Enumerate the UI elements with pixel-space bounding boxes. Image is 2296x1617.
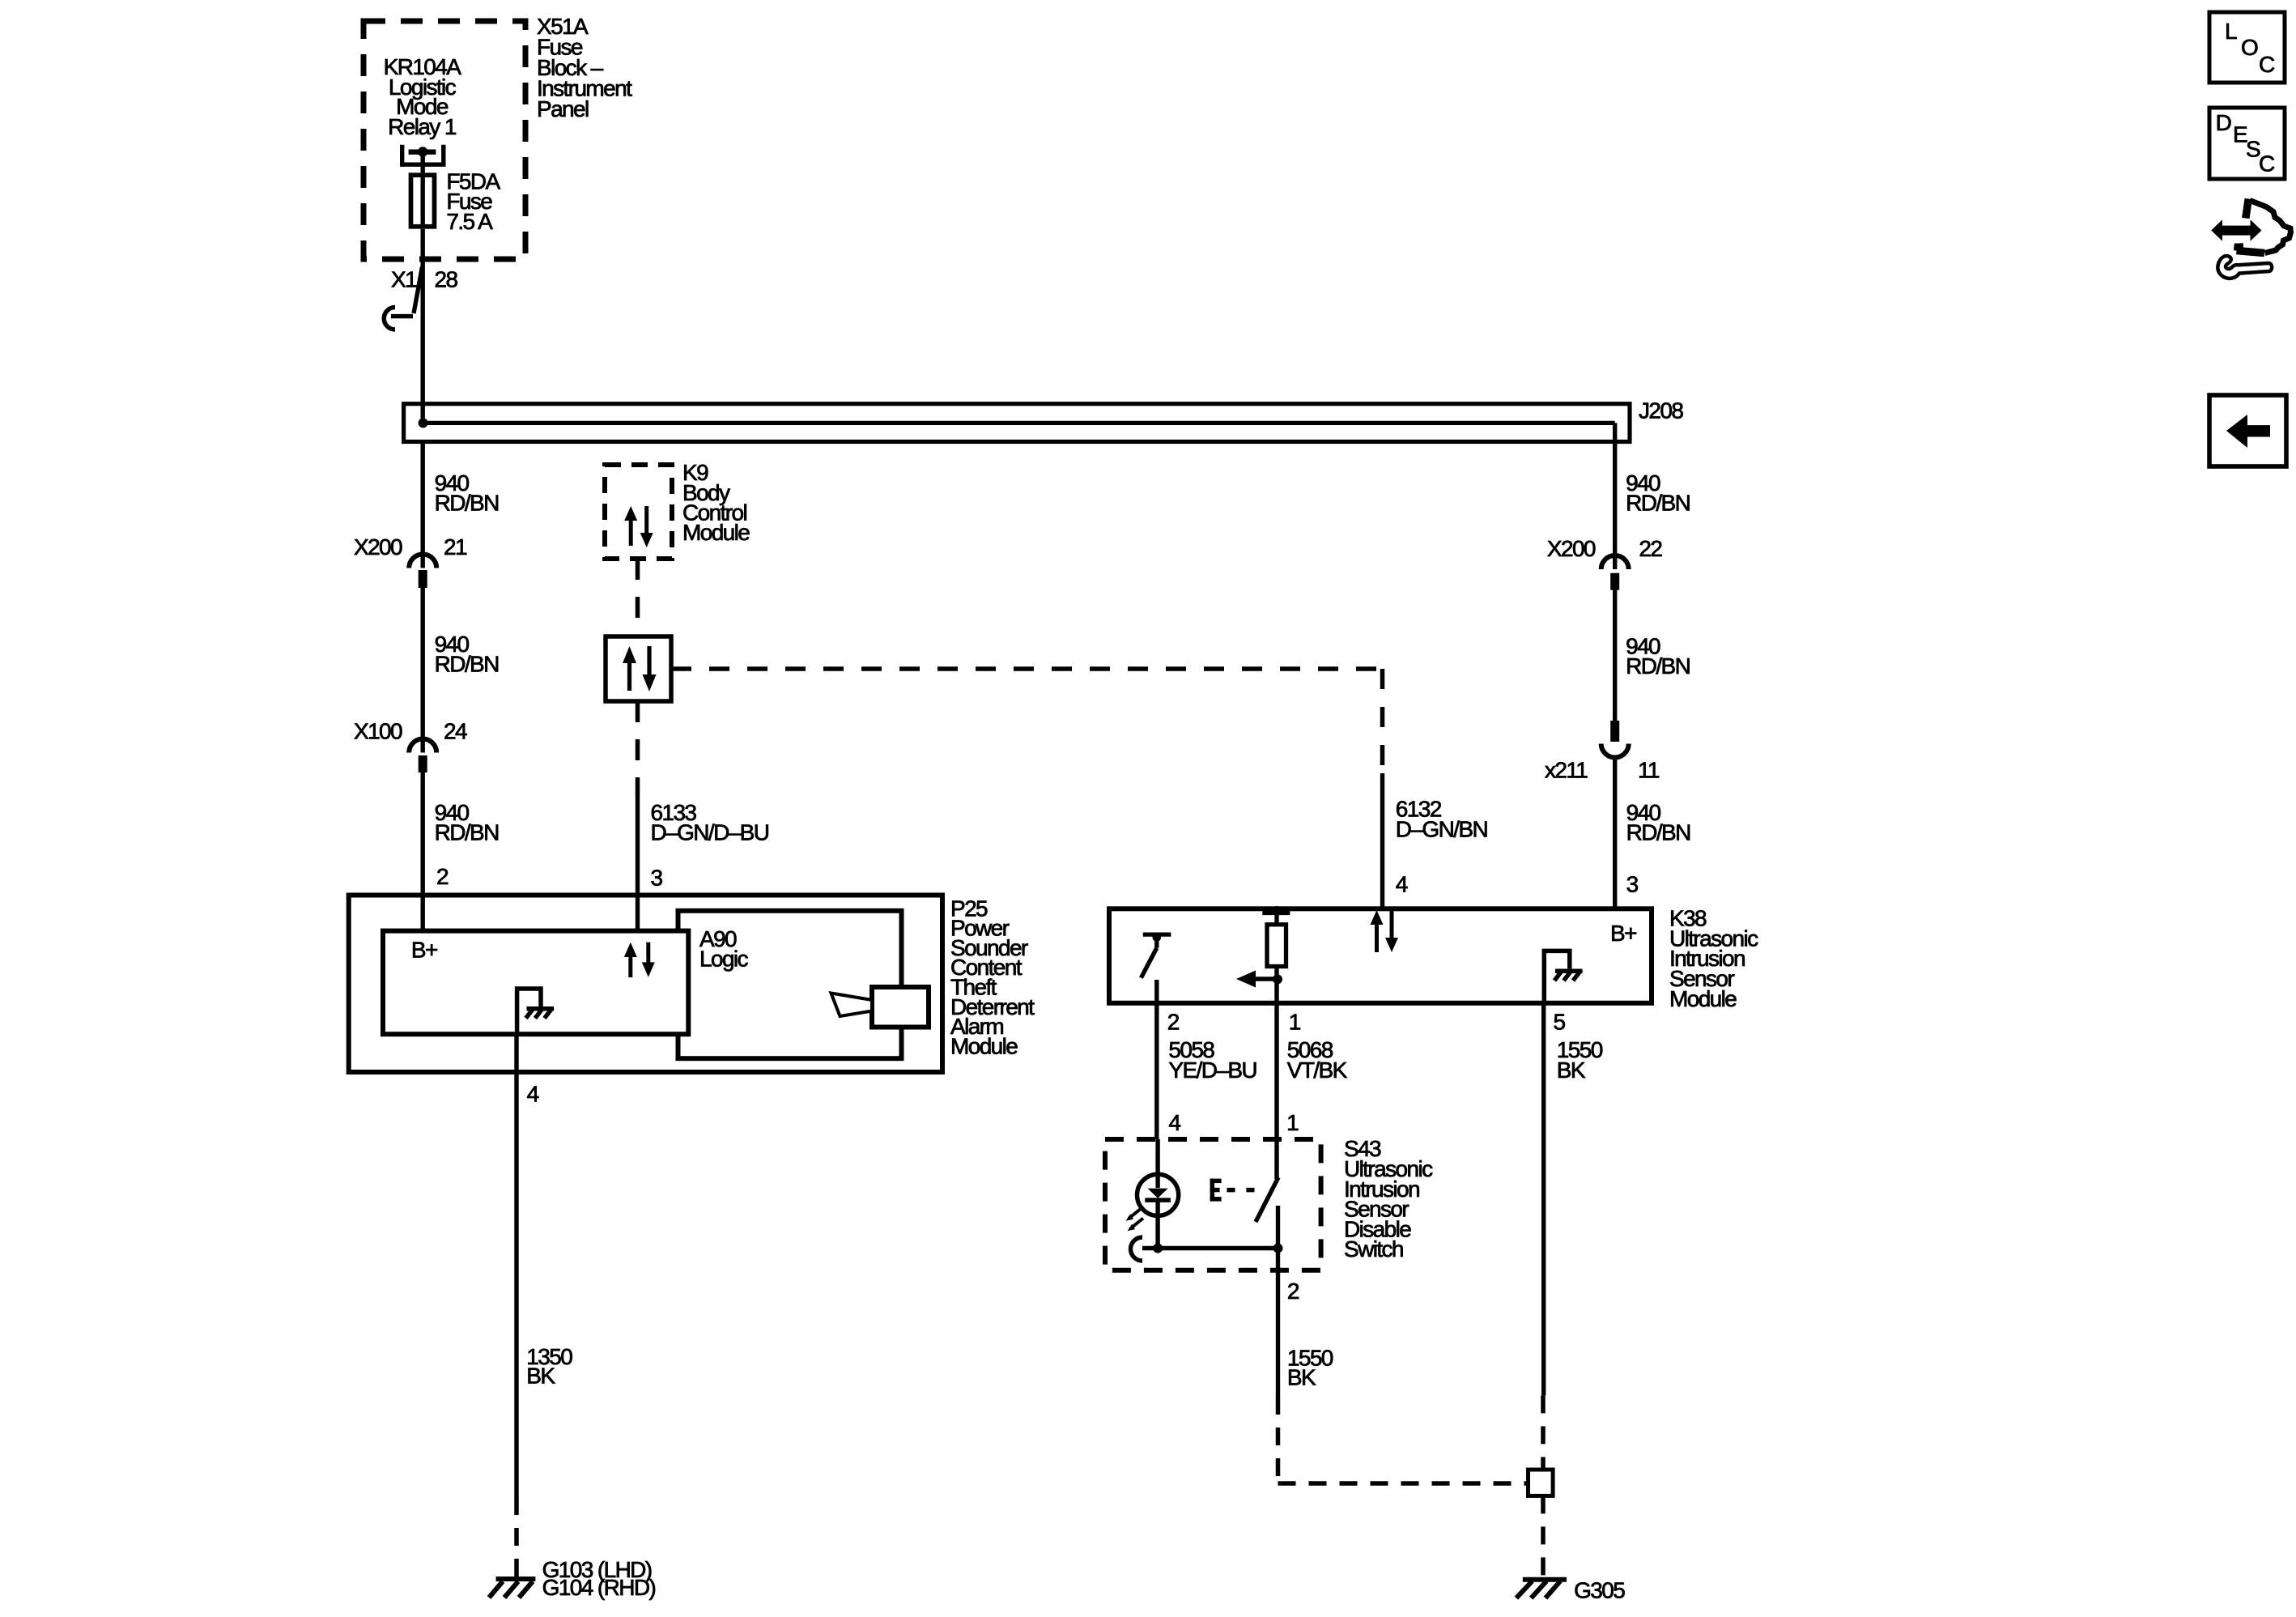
svg-text:L: L <box>2225 19 2237 44</box>
svg-text:Module: Module <box>1669 986 1737 1011</box>
icon DESC box <box>2209 108 2285 179</box>
svg-text:X200: X200 <box>354 534 402 560</box>
label 940 RD/BN left mid <box>435 632 499 677</box>
label A90 Logic <box>699 926 749 971</box>
label KR104A Logistic Mode Relay 1 <box>384 54 462 139</box>
svg-text:5: 5 <box>1554 1010 1566 1035</box>
wire horizontal S43 <box>1142 1246 1278 1250</box>
ground symbol internal P25 <box>517 989 541 1034</box>
svg-text:Relay 1: Relay 1 <box>388 114 457 139</box>
switch symbol K38 <box>1143 932 1171 936</box>
dashed wire logic box down <box>636 701 640 798</box>
svg-text:4: 4 <box>1168 1110 1180 1135</box>
junction dot switch bottom <box>1273 1244 1283 1253</box>
wire relay to fuse <box>421 152 425 173</box>
svg-text:4: 4 <box>1396 871 1408 896</box>
label 6132 D-GN/BN <box>1396 797 1487 842</box>
label 940 RD/BN right top <box>1626 470 1690 516</box>
svg-text:RD/BN: RD/BN <box>435 651 499 676</box>
icon wrench <box>2217 256 2272 279</box>
icon back arrow box <box>2209 395 2286 466</box>
hook connector S43 <box>1131 1237 1142 1261</box>
bidirectional arrows K9 <box>624 506 653 547</box>
connector X200 pin 21 <box>409 555 436 568</box>
svg-text:28: 28 <box>435 267 458 292</box>
svg-text:J208: J208 <box>1639 398 1683 423</box>
label X1 <box>391 267 417 292</box>
label G305 <box>1574 1578 1625 1603</box>
label pin 5 K38 <box>1554 1010 1566 1035</box>
label B+ K38 <box>1610 921 1636 946</box>
label 940 RD/BN right lower <box>1626 800 1690 845</box>
svg-text:VT/BK: VT/BK <box>1287 1057 1348 1083</box>
fuse block X51A dashed box <box>364 21 525 259</box>
dashed wire splice to G305 <box>1541 1496 1546 1577</box>
icon LOC box <box>2209 12 2285 83</box>
label pin 2 S43 <box>1287 1279 1299 1304</box>
label 5068 VT/BK <box>1287 1037 1348 1083</box>
resistor K38 <box>1273 906 1282 915</box>
label J208 <box>1639 398 1683 423</box>
label pin 4 K38 <box>1396 871 1408 896</box>
switch blade S43 <box>1274 1139 1278 1179</box>
svg-text:B+: B+ <box>1610 921 1636 946</box>
label pin 2 K38 <box>1167 1010 1180 1035</box>
label 1550 BK bottom <box>1287 1346 1333 1390</box>
label X51A Fuse Block Instrument Panel <box>537 14 632 121</box>
label 6133 D-GN/D-BU <box>651 800 769 845</box>
label pin 4 S43 <box>1168 1110 1180 1135</box>
module P25 outer box <box>349 896 942 1073</box>
svg-text:3: 3 <box>1626 871 1639 896</box>
connector X200 pin 22 <box>1601 555 1629 569</box>
fuse F5DA <box>411 175 435 227</box>
wire X200-22 to x211 <box>1613 590 1617 721</box>
svg-text:BK: BK <box>1287 1365 1316 1390</box>
wire K38 pin 2 to S43 pin 4 <box>1154 1003 1159 1139</box>
svg-text:D: D <box>2216 110 2231 135</box>
logic block A90 <box>678 911 902 1058</box>
wire right column J208 down <box>1613 423 1617 569</box>
arrow left K38 <box>1256 977 1278 981</box>
dashed wire S43 pin2 to splice <box>1276 1397 1281 1483</box>
label 1350 BK <box>526 1344 572 1389</box>
svg-text:RD/BN: RD/BN <box>435 820 499 845</box>
label pin 1 S43 <box>1286 1110 1299 1135</box>
svg-text:24: 24 <box>444 719 467 744</box>
dashed wire logic box to K38 pin 4 horizontal <box>671 666 1383 671</box>
splice bus J208 <box>404 404 1630 442</box>
svg-text:X100: X100 <box>354 719 402 744</box>
svg-text:C: C <box>2259 151 2275 177</box>
label 940 RD/BN right mid <box>1626 633 1690 679</box>
svg-text:7.5 A: 7.5 A <box>446 209 493 234</box>
connector X100 pin 24 <box>409 739 436 753</box>
svg-text:22: 22 <box>1639 536 1662 561</box>
module S43 dashed box <box>1105 1139 1321 1270</box>
svg-text:RD/BN: RD/BN <box>1626 490 1690 515</box>
label F5DA Fuse 7.5 A <box>446 168 500 234</box>
wire x211 to K38 pin 3 <box>1613 758 1617 908</box>
logic gate box serial data <box>606 636 671 701</box>
svg-text:4: 4 <box>527 1082 539 1107</box>
dashed wire to ground G103 <box>514 1497 519 1584</box>
light emission arrows LED <box>1129 1208 1143 1229</box>
svg-text:X1: X1 <box>391 267 417 292</box>
connector x211 pin 11 <box>1610 721 1619 742</box>
svg-text:X200: X200 <box>1547 536 1596 561</box>
bidirectional arrows B+ box <box>624 943 655 977</box>
label K9 Body Control Module <box>682 460 750 545</box>
svg-text:1: 1 <box>1289 1010 1301 1035</box>
ground symbol internal K38 <box>1544 951 1570 1002</box>
module K9 Body Control Module dashed box <box>605 465 672 559</box>
dashed wire K9 to logic box <box>636 559 640 636</box>
wire K38 pin 1 to S43 pin 1 <box>1274 1003 1278 1139</box>
svg-text:YE/D–BU: YE/D–BU <box>1168 1057 1256 1083</box>
svg-text:O: O <box>2241 35 2258 60</box>
svg-text:RD/BN: RD/BN <box>1626 653 1690 679</box>
svg-text:Logic: Logic <box>699 946 749 971</box>
svg-text:B+: B+ <box>411 938 437 963</box>
label pin 3 K38 <box>1626 871 1639 896</box>
label 940 RD/BN left top <box>435 470 499 516</box>
ground G103 G104 symbol <box>496 1577 536 1581</box>
splice square <box>1529 1470 1554 1496</box>
wire fuse to J208 bus <box>421 229 425 423</box>
relay KR104A contact <box>402 145 444 164</box>
actuator E symbol S43 <box>1210 1179 1222 1202</box>
B+ box P25 <box>383 931 688 1035</box>
svg-text:11: 11 <box>1638 757 1660 782</box>
label S43 Ultrasonic Intrusion Sensor Disable Switch <box>1344 1136 1433 1262</box>
bidirectional arrows K38 <box>1371 910 1399 952</box>
wire X200 to X100 <box>421 588 425 753</box>
module K38 box <box>1109 908 1652 1003</box>
wire X100 to P25 pin 2 <box>421 772 425 931</box>
label pin 3 P25 <box>651 866 663 891</box>
connector X1 pin 28 symbol <box>414 267 423 314</box>
label B+ <box>411 938 437 963</box>
junction dot relay <box>418 147 427 156</box>
ground G305 symbol <box>1523 1577 1567 1582</box>
svg-text:D–GN/D–BU: D–GN/D–BU <box>651 820 769 845</box>
label 1550 BK right <box>1557 1037 1603 1083</box>
svg-text:BK: BK <box>526 1364 555 1389</box>
label 28 <box>435 267 458 292</box>
junction dot J208 <box>419 418 428 428</box>
svg-text:3: 3 <box>651 866 663 891</box>
wire solid to K38 pin 4 <box>1380 773 1384 908</box>
label 5058 YE/D-BU <box>1168 1037 1256 1083</box>
svg-text:D–GN/BN: D–GN/BN <box>1396 816 1487 841</box>
LED indicator S43 <box>1155 1139 1159 1174</box>
svg-text:RD/BN: RD/BN <box>1626 820 1690 845</box>
dashed wire K38 pin5 to splice <box>1541 1395 1546 1470</box>
svg-text:2: 2 <box>1167 1010 1180 1035</box>
bidirectional arrows logic box <box>623 646 657 691</box>
label G103 G104 <box>542 1557 656 1600</box>
junction dot LED bottom <box>1153 1244 1163 1253</box>
svg-text:G104 (RHD): G104 (RHD) <box>542 1575 656 1600</box>
svg-text:Switch: Switch <box>1344 1236 1403 1262</box>
label pin 1 K38 <box>1289 1010 1301 1035</box>
svg-text:21: 21 <box>444 534 467 560</box>
label P25 Power Sounder Content Theft Deterrent Alarm Module <box>950 896 1035 1058</box>
wire left column J208 to X200 <box>421 443 425 568</box>
svg-text:G305: G305 <box>1574 1578 1625 1603</box>
svg-text:1: 1 <box>1286 1110 1299 1135</box>
wire S43 pin 2 down <box>1276 1249 1280 1398</box>
label K38 Ultrasonic Intrusion Sensor Module <box>1669 905 1758 1011</box>
svg-text:2: 2 <box>1287 1279 1299 1304</box>
actuator dashes <box>1227 1188 1235 1193</box>
svg-text:C: C <box>2259 52 2275 77</box>
horn sounder symbol <box>872 987 929 1028</box>
wire P25 pin 4 down <box>514 1034 518 1497</box>
wire K38 pin 2 internal <box>1154 980 1159 1003</box>
svg-text:x211: x211 <box>1545 757 1588 782</box>
label pin 4 P25 <box>527 1082 539 1107</box>
svg-text:2: 2 <box>436 864 449 889</box>
svg-text:RD/BN: RD/BN <box>435 490 499 515</box>
svg-text:Panel: Panel <box>537 96 589 121</box>
label 940 RD/BN left lower <box>435 800 499 845</box>
junction dot arrow K38 <box>1273 974 1282 984</box>
svg-text:BK: BK <box>1557 1057 1586 1083</box>
wire solid to P25 pin 3 <box>636 798 640 931</box>
svg-text:Module: Module <box>682 520 750 545</box>
label pin 2 P25 <box>436 864 449 889</box>
svg-text:Module: Module <box>950 1033 1018 1058</box>
dashed wire vertical to K38 pin 4 <box>1380 669 1385 773</box>
icon vehicle with arrow <box>2211 219 2261 240</box>
wire K38 pin 5 down <box>1541 1003 1546 1396</box>
